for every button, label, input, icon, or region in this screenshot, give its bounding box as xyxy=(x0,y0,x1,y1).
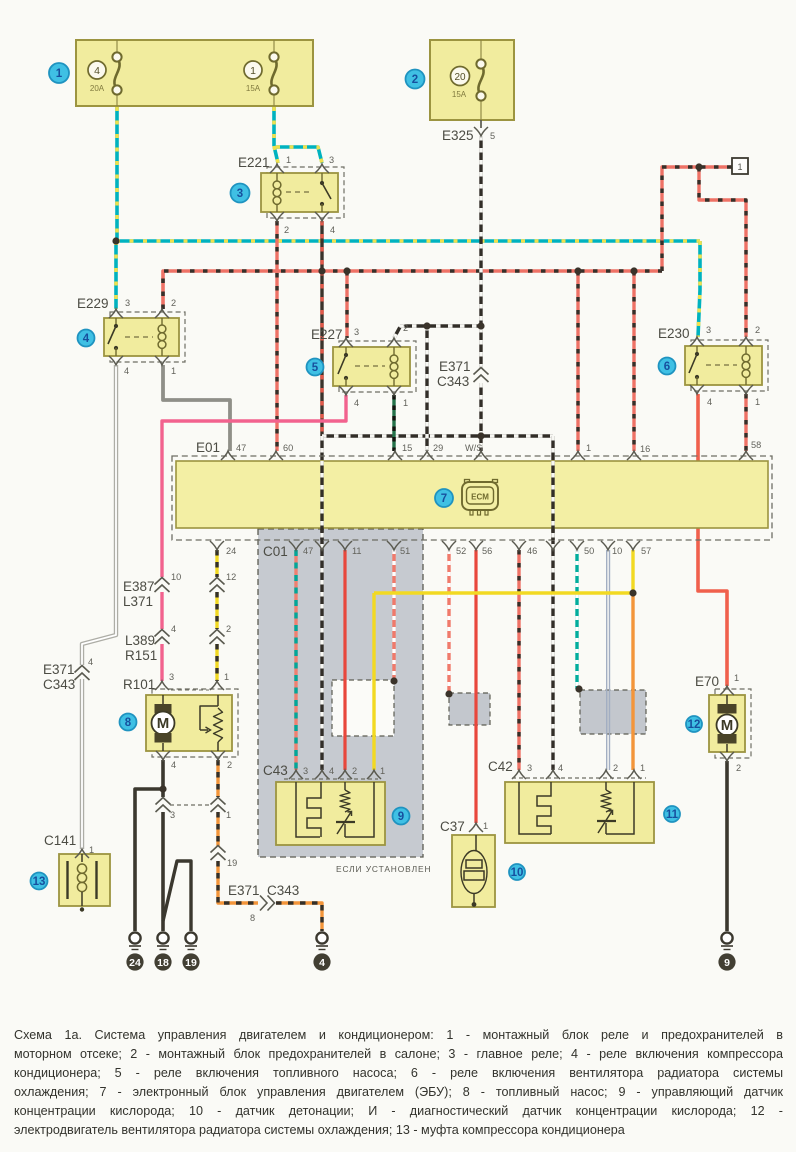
svg-text:60: 60 xyxy=(283,443,293,453)
svg-text:4: 4 xyxy=(171,624,176,634)
svg-text:2: 2 xyxy=(227,760,232,770)
svg-text:C01: C01 xyxy=(263,544,288,559)
svg-text:R151: R151 xyxy=(125,648,157,663)
svg-text:4: 4 xyxy=(319,957,325,969)
svg-text:7: 7 xyxy=(441,493,447,505)
svg-text:1: 1 xyxy=(224,672,229,682)
svg-text:5: 5 xyxy=(490,131,495,141)
svg-text:3: 3 xyxy=(237,188,243,200)
svg-text:1: 1 xyxy=(586,443,591,453)
svg-text:E229: E229 xyxy=(77,296,109,311)
svg-text:15: 15 xyxy=(402,443,412,453)
svg-text:M: M xyxy=(157,715,170,732)
svg-text:4: 4 xyxy=(171,760,176,770)
svg-text:8: 8 xyxy=(125,717,132,729)
svg-text:47: 47 xyxy=(236,443,246,453)
svg-text:1: 1 xyxy=(171,366,176,376)
svg-text:51: 51 xyxy=(400,546,410,556)
svg-text:4: 4 xyxy=(88,657,93,667)
svg-text:1: 1 xyxy=(286,155,291,165)
svg-text:9: 9 xyxy=(398,811,404,823)
svg-text:19: 19 xyxy=(227,858,237,868)
svg-text:2: 2 xyxy=(412,74,418,86)
svg-text:W/S: W/S xyxy=(465,443,482,453)
svg-text:4: 4 xyxy=(94,65,100,77)
svg-text:1: 1 xyxy=(226,810,231,820)
svg-text:15A: 15A xyxy=(246,84,261,93)
svg-text:2: 2 xyxy=(226,624,231,634)
svg-text:10: 10 xyxy=(171,572,181,582)
svg-text:2: 2 xyxy=(736,763,741,773)
svg-text:56: 56 xyxy=(482,546,492,556)
svg-text:1: 1 xyxy=(755,397,760,407)
svg-text:18: 18 xyxy=(157,957,169,969)
svg-text:3: 3 xyxy=(354,327,359,337)
svg-text:4: 4 xyxy=(558,763,563,773)
svg-text:2: 2 xyxy=(613,763,618,773)
svg-text:12: 12 xyxy=(688,719,701,731)
svg-text:1: 1 xyxy=(56,68,63,80)
svg-text:L389: L389 xyxy=(125,633,155,648)
svg-text:C141: C141 xyxy=(44,833,76,848)
svg-text:3: 3 xyxy=(170,810,175,820)
svg-text:C43: C43 xyxy=(263,763,288,778)
svg-text:E371: E371 xyxy=(439,359,471,374)
svg-text:16: 16 xyxy=(640,444,650,454)
svg-text:10: 10 xyxy=(612,546,622,556)
svg-text:12: 12 xyxy=(226,572,236,582)
svg-text:6: 6 xyxy=(664,361,670,373)
svg-text:E70: E70 xyxy=(695,674,719,689)
svg-text:19: 19 xyxy=(185,957,197,969)
svg-text:1: 1 xyxy=(89,845,94,855)
svg-text:4: 4 xyxy=(329,766,334,776)
svg-text:4: 4 xyxy=(124,366,129,376)
svg-text:3: 3 xyxy=(125,298,130,308)
svg-text:8: 8 xyxy=(250,913,255,923)
svg-text:E221: E221 xyxy=(238,155,270,170)
svg-text:ЕСЛИ УСТАНОВЛЕН: ЕСЛИ УСТАНОВЛЕН xyxy=(336,864,431,874)
svg-text:E227: E227 xyxy=(311,327,343,342)
svg-text:C37: C37 xyxy=(440,819,465,834)
svg-text:4: 4 xyxy=(354,398,359,408)
svg-text:2: 2 xyxy=(755,325,760,335)
svg-text:29: 29 xyxy=(433,443,443,453)
svg-text:ECM: ECM xyxy=(471,493,489,502)
svg-text:3: 3 xyxy=(329,155,334,165)
svg-text:C343: C343 xyxy=(43,677,75,692)
svg-text:E371: E371 xyxy=(43,662,75,677)
svg-text:11: 11 xyxy=(666,809,679,821)
svg-text:58: 58 xyxy=(751,440,761,450)
svg-text:9: 9 xyxy=(724,957,730,969)
svg-text:L371: L371 xyxy=(123,594,153,609)
svg-text:E230: E230 xyxy=(658,326,690,341)
svg-text:C343: C343 xyxy=(437,374,469,389)
svg-text:20A: 20A xyxy=(90,84,105,93)
svg-text:24: 24 xyxy=(129,957,141,969)
svg-text:2: 2 xyxy=(403,323,408,333)
svg-text:3: 3 xyxy=(706,325,711,335)
svg-text:E387: E387 xyxy=(123,579,155,594)
svg-text:4: 4 xyxy=(707,397,712,407)
svg-text:2: 2 xyxy=(284,225,289,235)
svg-text:1: 1 xyxy=(640,763,645,773)
svg-text:M: M xyxy=(721,717,734,734)
svg-text:57: 57 xyxy=(641,546,651,556)
svg-text:50: 50 xyxy=(584,546,594,556)
svg-text:10: 10 xyxy=(511,867,524,879)
svg-text:20: 20 xyxy=(454,72,466,83)
svg-text:R101: R101 xyxy=(123,677,155,692)
svg-text:52: 52 xyxy=(456,546,466,556)
svg-text:3: 3 xyxy=(303,766,308,776)
svg-text:15A: 15A xyxy=(452,90,467,99)
svg-text:5: 5 xyxy=(312,362,319,374)
svg-text:1: 1 xyxy=(737,162,742,172)
svg-text:11: 11 xyxy=(352,546,362,556)
svg-text:4: 4 xyxy=(330,225,335,235)
svg-text:1: 1 xyxy=(250,65,256,77)
svg-text:2: 2 xyxy=(352,766,357,776)
svg-text:1: 1 xyxy=(380,766,385,776)
svg-text:47: 47 xyxy=(303,546,313,556)
svg-text:1: 1 xyxy=(403,398,408,408)
svg-text:3: 3 xyxy=(527,763,532,773)
svg-text:E01: E01 xyxy=(196,440,220,455)
svg-text:C343: C343 xyxy=(267,883,299,898)
svg-text:3: 3 xyxy=(169,672,174,682)
svg-text:E325: E325 xyxy=(442,128,474,143)
svg-text:4: 4 xyxy=(83,333,90,345)
svg-text:C42: C42 xyxy=(488,759,513,774)
svg-text:46: 46 xyxy=(527,546,537,556)
svg-text:13: 13 xyxy=(33,876,46,888)
svg-text:24: 24 xyxy=(226,546,236,556)
svg-text:1: 1 xyxy=(483,821,488,831)
svg-text:1: 1 xyxy=(734,673,739,683)
svg-text:2: 2 xyxy=(171,298,176,308)
svg-text:E371: E371 xyxy=(228,883,260,898)
